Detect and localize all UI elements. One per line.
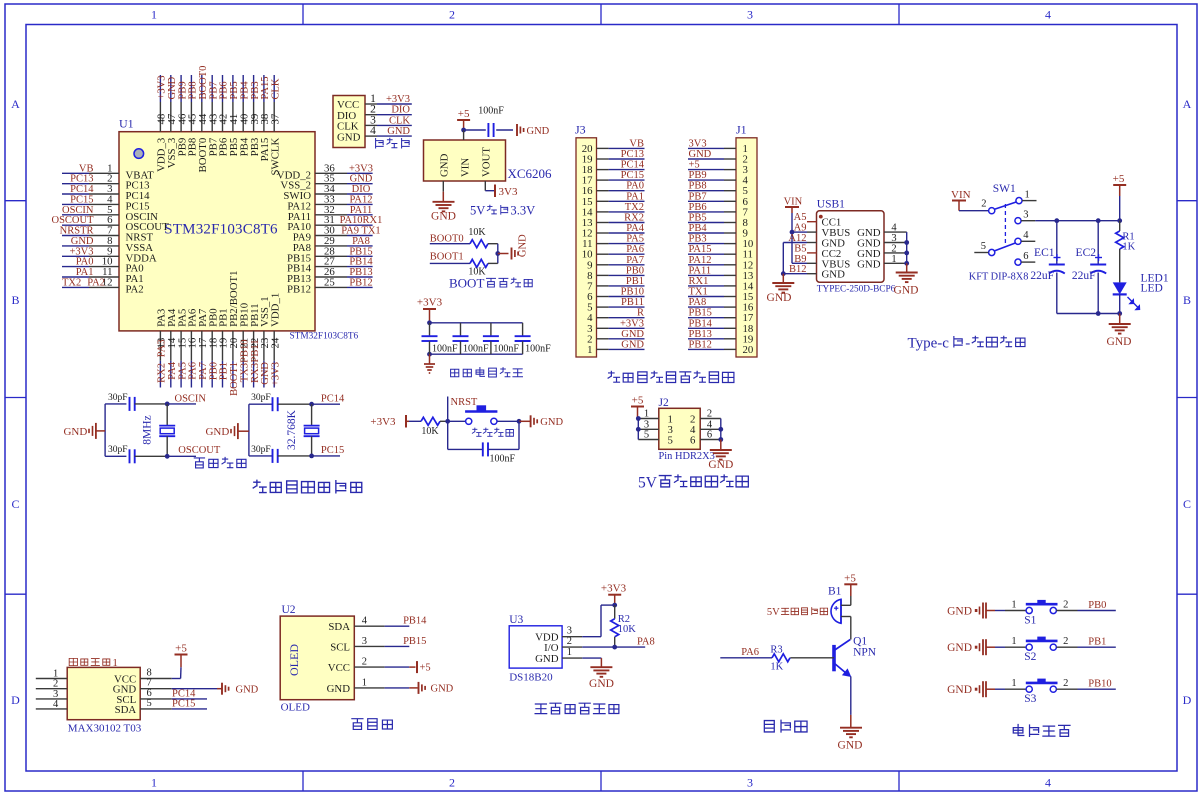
wire 8MHz bottom	[105, 455, 126, 457]
ground (USB right)	[894, 263, 919, 296]
svg-text:PB7: PB7	[689, 191, 707, 202]
svg-text:4: 4	[362, 616, 368, 627]
svg-text:GND: GND	[708, 459, 733, 471]
svg-text:OLED: OLED	[281, 702, 310, 714]
svg-text:+5: +5	[632, 395, 644, 407]
U1 pin 38 (PA15) wire	[259, 75, 271, 161]
U1 pin 29 (PA8) wire	[293, 235, 373, 254]
U1 pin 11 (PA1) wire	[62, 266, 144, 285]
svg-text:GND: GND	[431, 684, 454, 695]
svg-text:A: A	[1183, 97, 1192, 111]
capacitor 100nF filter #2	[453, 323, 490, 355]
svg-text:OSCOUT: OSCOUT	[178, 445, 221, 456]
svg-text:+3V3: +3V3	[270, 362, 281, 386]
svg-text:PB6: PB6	[219, 81, 230, 99]
svg-text:PA15: PA15	[689, 244, 712, 255]
svg-text:PB15: PB15	[689, 308, 712, 319]
power +3V3 bar port at VOUT	[495, 185, 518, 198]
svg-text:3V3: 3V3	[689, 138, 707, 149]
U1 pin 8 (VSSA) wire	[62, 235, 153, 254]
display U2 OLED body	[280, 604, 354, 714]
crystal 32.768K circuit left rail	[248, 404, 250, 456]
wire base resistor R3	[790, 657, 834, 659]
svg-text:STM32F103C8T6: STM32F103C8T6	[164, 222, 278, 238]
wire cap to PC14 node	[278, 393, 345, 406]
svg-text:20: 20	[743, 344, 754, 356]
svg-text:TX2: TX2	[62, 277, 81, 288]
U1 pin 28 (PB15) wire	[287, 245, 373, 264]
svg-text:GND: GND	[621, 329, 644, 340]
power +3V3 port (filter caps)	[417, 297, 443, 323]
J1 pin 6 wire	[688, 191, 749, 208]
U1 pin 6 (OSCOUT) wire	[51, 214, 169, 233]
svg-text:6: 6	[707, 430, 712, 441]
svg-text:OSCIN: OSCIN	[175, 393, 207, 404]
power GND bar port (reset)	[531, 415, 564, 428]
push button S? (reset)	[465, 405, 497, 424]
wire cap to OSCOUT node	[135, 445, 221, 459]
U1 pin 44 (BOOT0) wire	[197, 66, 209, 173]
svg-text:GND: GND	[431, 211, 456, 223]
wire filter top bus	[427, 320, 522, 325]
net label BOOT0 wire	[430, 234, 470, 245]
svg-text:B: B	[1183, 293, 1191, 307]
wire cap to PC15 node	[278, 445, 345, 459]
svg-text:GND: GND	[327, 683, 351, 695]
svg-text:TX1: TX1	[689, 287, 708, 298]
svg-text:GND: GND	[947, 642, 972, 654]
capacitor 30pF (8MHz top)	[108, 393, 135, 411]
svg-text:VIN: VIN	[784, 197, 803, 208]
caption dan-pian-ji yin-jiao wai-yin pai-zhen	[608, 371, 734, 382]
svg-text:PB10: PB10	[1088, 679, 1111, 690]
svg-text:J1: J1	[736, 123, 747, 137]
svg-text:PB8: PB8	[188, 81, 199, 99]
J1 pin 13 wire	[688, 265, 753, 282]
capacitor 100nF filter #1	[422, 323, 459, 355]
J3 pin 8 wire	[587, 265, 644, 282]
svg-text:A5: A5	[794, 212, 807, 223]
svg-text:37: 37	[269, 113, 281, 124]
svg-text:PA8: PA8	[689, 297, 707, 308]
svg-text:PC14: PC14	[70, 184, 94, 195]
svg-text:PC14: PC14	[321, 393, 345, 404]
caption 5V jiang-ya 3.3V	[470, 204, 535, 218]
crystal Y? 8MHz circuit left rail	[104, 404, 106, 456]
svg-text:4: 4	[1045, 8, 1051, 22]
svg-text:GND: GND	[540, 417, 563, 428]
ground (buzzer)	[838, 728, 863, 752]
svg-text:+5: +5	[175, 643, 187, 655]
J3 pin 11 wire	[582, 234, 644, 251]
svg-text:PC15: PC15	[70, 194, 93, 205]
svg-text:PB13: PB13	[689, 329, 712, 340]
svg-text:GND: GND	[689, 149, 712, 160]
svg-text:PA7: PA7	[626, 255, 644, 266]
svg-text:PA1: PA1	[626, 191, 644, 202]
crystal 8MHz	[142, 404, 176, 456]
caption feng-ming-qi	[764, 720, 807, 732]
svg-text:GND: GND	[894, 285, 919, 297]
svg-text:PA6: PA6	[741, 647, 759, 658]
svg-text:1: 1	[567, 647, 572, 658]
svg-text:C: C	[11, 497, 19, 511]
download-port pin 2 wire	[365, 104, 412, 116]
svg-text:24: 24	[269, 337, 281, 348]
net label VIN power port (SW1)	[951, 189, 971, 211]
svg-text:3: 3	[1023, 210, 1028, 221]
node VIN junction	[461, 128, 466, 140]
svg-text:PB13: PB13	[349, 267, 372, 278]
U1 pin 15 (PA5) wire	[176, 309, 188, 388]
wire S1 to PB0	[1056, 600, 1115, 612]
svg-text:PC14: PC14	[621, 160, 645, 171]
svg-text:PC15: PC15	[172, 698, 195, 709]
J1 pin 5 wire	[688, 181, 748, 198]
svg-text:VB: VB	[629, 138, 644, 149]
svg-text:B9: B9	[794, 254, 806, 265]
svg-text:PA11: PA11	[689, 265, 712, 276]
svg-text:PB6: PB6	[689, 202, 707, 213]
J3 pin 1 wire	[587, 339, 644, 356]
svg-text:PB0: PB0	[626, 265, 644, 276]
connector USB1 TYPEC-250D-BCP6 body	[817, 199, 896, 295]
J2 right pins wires	[700, 409, 723, 442]
J1 pin 11 wire	[688, 244, 753, 261]
push button S1	[1024, 600, 1057, 627]
sensor U3 DS18B20 body	[509, 614, 562, 684]
U1 pin 47 (VSS_3) wire	[166, 75, 178, 168]
svg-text:CLK: CLK	[389, 115, 410, 126]
svg-text:22uF: 22uF	[1072, 270, 1096, 282]
USB1 pin A5 stub	[794, 212, 817, 223]
MAX30102 pin 5 wire PC15	[140, 698, 207, 710]
push button S3	[1024, 679, 1057, 706]
svg-text:C: C	[1183, 497, 1191, 511]
svg-text:4: 4	[53, 699, 59, 710]
svg-text:PA5: PA5	[626, 234, 644, 245]
capacitor 100nF filter #4	[515, 323, 552, 355]
caption 5V wai-jie bei-yong dian-yuan	[638, 475, 748, 492]
push button S2	[1024, 637, 1057, 664]
svg-text:D: D	[11, 693, 20, 707]
U1 pin 5 (OSCIN) wire	[62, 204, 158, 223]
svg-text:Type-c: Type-c	[908, 336, 950, 352]
ground (DS18B20)	[589, 667, 614, 690]
svg-text:100nF: 100nF	[478, 106, 504, 117]
U3 pin 2 wire PA8	[562, 636, 655, 647]
caption xian-shi-ping	[352, 719, 392, 730]
J1 pin 10 wire	[688, 234, 753, 251]
svg-text:+3V3: +3V3	[417, 297, 443, 309]
svg-text:NRSTR: NRSTR	[60, 226, 94, 237]
svg-text:B5: B5	[794, 243, 806, 254]
wire VOUT to +3V3	[485, 181, 494, 191]
power +5 port at XC6206	[457, 108, 470, 130]
svg-text:PB14: PB14	[403, 616, 427, 627]
wire node to button	[448, 420, 466, 422]
svg-text:RX2: RX2	[157, 363, 168, 383]
U1 pin 26 (PB13) wire	[287, 266, 373, 285]
J1 pin 9 wire	[688, 223, 748, 240]
U1 pin 3 (PC14) wire	[62, 183, 150, 202]
svg-text:3: 3	[747, 8, 753, 22]
U1 pin 4 (PC15) wire	[62, 193, 150, 212]
wire button to right node	[497, 419, 530, 424]
J3 pin 4 wire	[587, 308, 644, 325]
svg-text:RX2: RX2	[624, 213, 644, 224]
wire power bottom bus	[1057, 311, 1122, 316]
svg-text:GND: GND	[838, 740, 863, 752]
U1 pin 22 (PB11) wire	[249, 303, 261, 387]
svg-text:GND: GND	[621, 339, 644, 350]
svg-text:100nF: 100nF	[463, 344, 489, 355]
U1 pin 40 (PB4) wire	[238, 75, 250, 156]
MAX30102 pin 8 wire	[140, 668, 180, 679]
svg-text:PB8: PB8	[689, 181, 707, 192]
crystal 32.768K	[286, 404, 320, 456]
capacitor 100nF (reset)	[483, 442, 516, 464]
svg-text:LED: LED	[1141, 283, 1163, 295]
svg-text:5V: 5V	[638, 475, 658, 492]
svg-text:GND: GND	[518, 234, 529, 257]
MAX30102 pin 6 wire PC14	[140, 688, 207, 700]
caption BOOT she-zhi dian-lu	[449, 276, 532, 291]
svg-text:PA8: PA8	[352, 236, 370, 247]
power GND bar port (S3)	[947, 681, 995, 697]
svg-text:PB10: PB10	[621, 287, 644, 298]
U2 pin 2 wire +5	[354, 657, 430, 674]
svg-text:GND: GND	[589, 678, 614, 690]
U1 pin 48 (VDD_3) wire	[156, 75, 168, 172]
download-port pin 4 wire	[365, 125, 412, 137]
svg-text:S3: S3	[1024, 693, 1036, 705]
J2 left pins wires	[636, 409, 659, 441]
U1 pin 24 (VDD_1) wire	[269, 293, 281, 388]
power +3V3 port (DS18B20)	[601, 583, 627, 608]
svg-text:GND: GND	[947, 684, 972, 696]
svg-text:5: 5	[644, 430, 649, 441]
svg-text:100nF: 100nF	[493, 344, 519, 355]
svg-text:SCL: SCL	[330, 641, 350, 653]
svg-text:3: 3	[567, 626, 572, 637]
connector J1 body	[736, 123, 757, 358]
U1 pin 27 (PB14) wire	[287, 256, 373, 275]
svg-text:SW1: SW1	[993, 183, 1016, 195]
USB1 pin B5 stub	[794, 243, 816, 254]
caption dan-pian-ji zui-xiao xi-tong	[253, 480, 362, 493]
svg-text:SDA: SDA	[115, 704, 137, 716]
svg-text:2: 2	[362, 657, 367, 668]
MAX30102 pin 7 wire to GND	[140, 678, 217, 689]
svg-text:TYPEC-250D-BCP6: TYPEC-250D-BCP6	[817, 285, 896, 295]
ground (filter caps)	[424, 354, 435, 373]
svg-text:5V: 5V	[470, 204, 485, 218]
svg-text:EC2: EC2	[1076, 247, 1097, 259]
svg-text:GND: GND	[71, 236, 94, 247]
svg-text:S1: S1	[1024, 615, 1036, 627]
connector download-port body	[333, 96, 365, 148]
caption Type-c kou dian-yuan dian-lu	[908, 336, 1025, 352]
svg-text:PC13: PC13	[621, 149, 644, 160]
U1 pin 23 (VSS_1) wire	[259, 296, 271, 387]
svg-text:+3V3: +3V3	[601, 583, 627, 595]
svg-text:GND: GND	[857, 258, 881, 270]
svg-text:J3: J3	[575, 123, 586, 137]
regulator U? XC6206 body	[424, 140, 553, 181]
svg-text:4: 4	[891, 223, 897, 234]
svg-text:GND: GND	[337, 131, 361, 143]
svg-text:PA0: PA0	[626, 181, 644, 192]
caption jing-zhen dian-lu (8MHz)	[194, 457, 246, 467]
svg-text:VB: VB	[79, 163, 94, 174]
J1 pin 4 wire	[688, 170, 749, 187]
svg-text:1: 1	[891, 254, 896, 265]
svg-text:BOOT0: BOOT0	[198, 66, 209, 100]
U3 pin 3 wire VDD	[562, 605, 615, 637]
power GND bar port (32K)	[205, 423, 248, 439]
svg-text:10K: 10K	[421, 426, 439, 437]
svg-text:PA4: PA4	[626, 223, 644, 234]
svg-text:PB4: PB4	[689, 223, 708, 234]
svg-text:NPN: NPN	[853, 647, 877, 659]
svg-text:+3V3: +3V3	[386, 94, 410, 105]
svg-text:2: 2	[891, 243, 896, 254]
transistor Q1 NPN	[834, 636, 877, 678]
svg-text:OSCIN: OSCIN	[62, 205, 94, 216]
J3 pin 18 wire	[582, 160, 645, 177]
svg-text:PB1: PB1	[626, 276, 644, 287]
svg-text:VCC: VCC	[328, 662, 350, 674]
svg-text:6: 6	[1023, 251, 1028, 262]
power GND bar port (S2)	[947, 639, 995, 655]
USB1 pin B9 stub	[794, 254, 816, 265]
svg-text:PB1: PB1	[1088, 637, 1106, 648]
wire GND to S3	[995, 678, 1026, 689]
power GND bar port (S1)	[947, 603, 995, 619]
capacitor 100nF at XC6206 input	[478, 106, 504, 138]
svg-text:PA12: PA12	[350, 194, 373, 205]
capacitor EC2 22uF	[1072, 221, 1106, 314]
svg-text:PB14: PB14	[349, 257, 373, 268]
svg-text:10K: 10K	[468, 227, 486, 238]
svg-text:1: 1	[151, 776, 157, 790]
power +5 port (buzzer)	[844, 573, 857, 606]
wire VIN to cap	[464, 129, 486, 131]
J3 pin 2 wire	[587, 329, 644, 346]
svg-text:30pF: 30pF	[251, 393, 271, 403]
U1 pin 41 (PB5) wire	[228, 75, 240, 156]
svg-text:22uF: 22uF	[1030, 270, 1054, 282]
U1 pin 13 (PA3) wire	[156, 309, 168, 388]
svg-text:PB12: PB12	[349, 277, 372, 288]
J1 pin 12 wire	[688, 255, 753, 272]
svg-text:U2: U2	[282, 604, 296, 616]
svg-text:4: 4	[1023, 230, 1029, 241]
svg-text:PB12: PB12	[287, 283, 311, 295]
power GND bar port (MAX30102)	[217, 683, 259, 696]
svg-text:30pF: 30pF	[108, 445, 128, 455]
svg-text:PA9 TX1: PA9 TX1	[341, 226, 380, 237]
connector J2 Pin HDR2X3 body	[659, 397, 715, 462]
svg-text:5: 5	[981, 241, 986, 252]
svg-text:1: 1	[1011, 636, 1016, 647]
capacitor 30pF (32K top)	[251, 393, 278, 411]
svg-text:5V: 5V	[767, 607, 780, 618]
U1 pin 31 (PA10) wire	[287, 214, 382, 233]
svg-text:6: 6	[690, 434, 696, 446]
svg-text:PA6: PA6	[626, 244, 644, 255]
svg-text:1: 1	[151, 8, 157, 22]
wire reset bottom loop left	[448, 421, 483, 449]
svg-text:3.3V: 3.3V	[510, 204, 535, 218]
svg-text:-: -	[965, 336, 970, 352]
svg-text:SWCLK: SWCLK	[269, 138, 281, 176]
svg-text:PB4: PB4	[239, 81, 250, 100]
power GND bar port at XC6206 input	[517, 124, 550, 137]
svg-text:XC6206: XC6206	[508, 166, 553, 181]
buzzer B1 5V active	[828, 586, 851, 624]
USB1 pin B12 stub	[789, 264, 817, 275]
wire VIN to SW1 pin2	[959, 210, 989, 212]
U1 pin 37 (SWCLK) wire	[269, 75, 281, 175]
svg-text:2: 2	[567, 636, 572, 647]
J1 pin 20 wire	[688, 339, 753, 356]
svg-text:U1: U1	[119, 117, 134, 131]
svg-text:+5: +5	[458, 108, 470, 120]
svg-text:RX1: RX1	[689, 276, 709, 287]
caption xia-zai-kou	[376, 138, 410, 148]
caption wen-du cai-ji mo-kuai	[535, 703, 619, 714]
U1 pin 46 (PB9) wire	[176, 75, 188, 156]
wire 32K top	[249, 403, 273, 405]
U1 pin 2 (PC13) wire	[62, 173, 150, 192]
U1 pin 16 (PA6) wire	[187, 308, 199, 387]
svg-text:PA1: PA1	[76, 267, 94, 278]
power GND bar port (8MHz)	[63, 423, 105, 439]
power +5 port (Type-C)	[1113, 173, 1127, 221]
sensor MAX30102 T03 body	[67, 667, 142, 734]
wire cap to OSCIN node	[135, 393, 207, 406]
svg-text:PC15: PC15	[621, 170, 644, 181]
wire S2 to PB1	[1056, 636, 1115, 648]
resistor R2 10K	[611, 605, 637, 649]
svg-text:BOOT0: BOOT0	[430, 234, 464, 245]
switch SW1 KFT DIP-8X8	[969, 183, 1037, 283]
J1 pin 7 wire	[688, 202, 749, 219]
svg-text:32.768K: 32.768K	[286, 409, 298, 450]
svg-text:PC15: PC15	[321, 445, 344, 456]
J1 pin 17 wire	[688, 308, 754, 325]
svg-text:VOUT: VOUT	[481, 147, 493, 177]
U2 pin 4 wire PB14	[354, 616, 427, 627]
svg-text:GND: GND	[527, 126, 550, 137]
J3 pin 3 wire	[587, 318, 644, 335]
J3 pin 12 wire	[582, 223, 645, 240]
svg-text:GND: GND	[822, 269, 846, 281]
svg-text:R3: R3	[770, 645, 782, 656]
svg-text:DIO: DIO	[391, 105, 410, 116]
svg-text:4: 4	[370, 125, 376, 137]
svg-text:PA8: PA8	[637, 637, 655, 648]
U1 pin 34 (SWIO) wire	[283, 183, 372, 202]
svg-text:+3V3: +3V3	[620, 318, 644, 329]
wire S3 to PB10	[1056, 678, 1115, 690]
USB1 pin A9 stub	[794, 223, 817, 234]
svg-text:PB12: PB12	[689, 339, 712, 350]
J3 pin 19 wire	[582, 149, 645, 166]
caption du-li an-jian	[1013, 724, 1070, 736]
